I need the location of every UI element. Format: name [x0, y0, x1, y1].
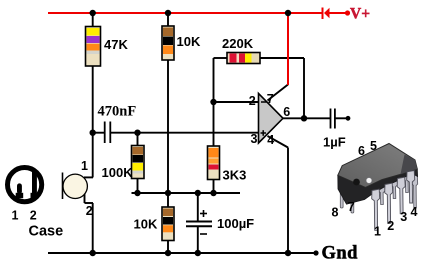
- svg-text:5: 5: [370, 139, 377, 153]
- svg-text:2: 2: [249, 94, 256, 108]
- svg-text:2: 2: [86, 204, 93, 218]
- svg-text:7: 7: [348, 200, 355, 214]
- svg-text:6: 6: [358, 144, 365, 158]
- svg-text:4: 4: [411, 205, 418, 219]
- svg-text:7: 7: [267, 92, 274, 106]
- svg-text:47K: 47K: [104, 37, 128, 52]
- svg-text:3: 3: [251, 132, 258, 146]
- svg-text:100K: 100K: [102, 165, 134, 180]
- svg-text:1: 1: [12, 209, 19, 223]
- svg-text:8: 8: [332, 206, 339, 220]
- svg-text:1: 1: [81, 159, 88, 173]
- svg-text:10K: 10K: [134, 217, 158, 232]
- svg-text:3K3: 3K3: [223, 168, 247, 183]
- svg-text:Gnd: Gnd: [322, 244, 359, 264]
- svg-text:2: 2: [387, 219, 394, 233]
- svg-text:220K: 220K: [222, 36, 254, 51]
- svg-text:100µF: 100µF: [217, 216, 254, 231]
- svg-text:1µF: 1µF: [323, 135, 346, 150]
- svg-text:1: 1: [374, 225, 381, 239]
- svg-text:470nF: 470nF: [98, 104, 137, 120]
- svg-text:6: 6: [283, 105, 290, 119]
- svg-text:Case: Case: [29, 224, 64, 240]
- svg-text:V+: V+: [350, 6, 370, 23]
- svg-text:2: 2: [30, 209, 37, 223]
- svg-text:4: 4: [267, 133, 274, 147]
- svg-text:3: 3: [400, 210, 407, 224]
- svg-text:10K: 10K: [177, 34, 201, 49]
